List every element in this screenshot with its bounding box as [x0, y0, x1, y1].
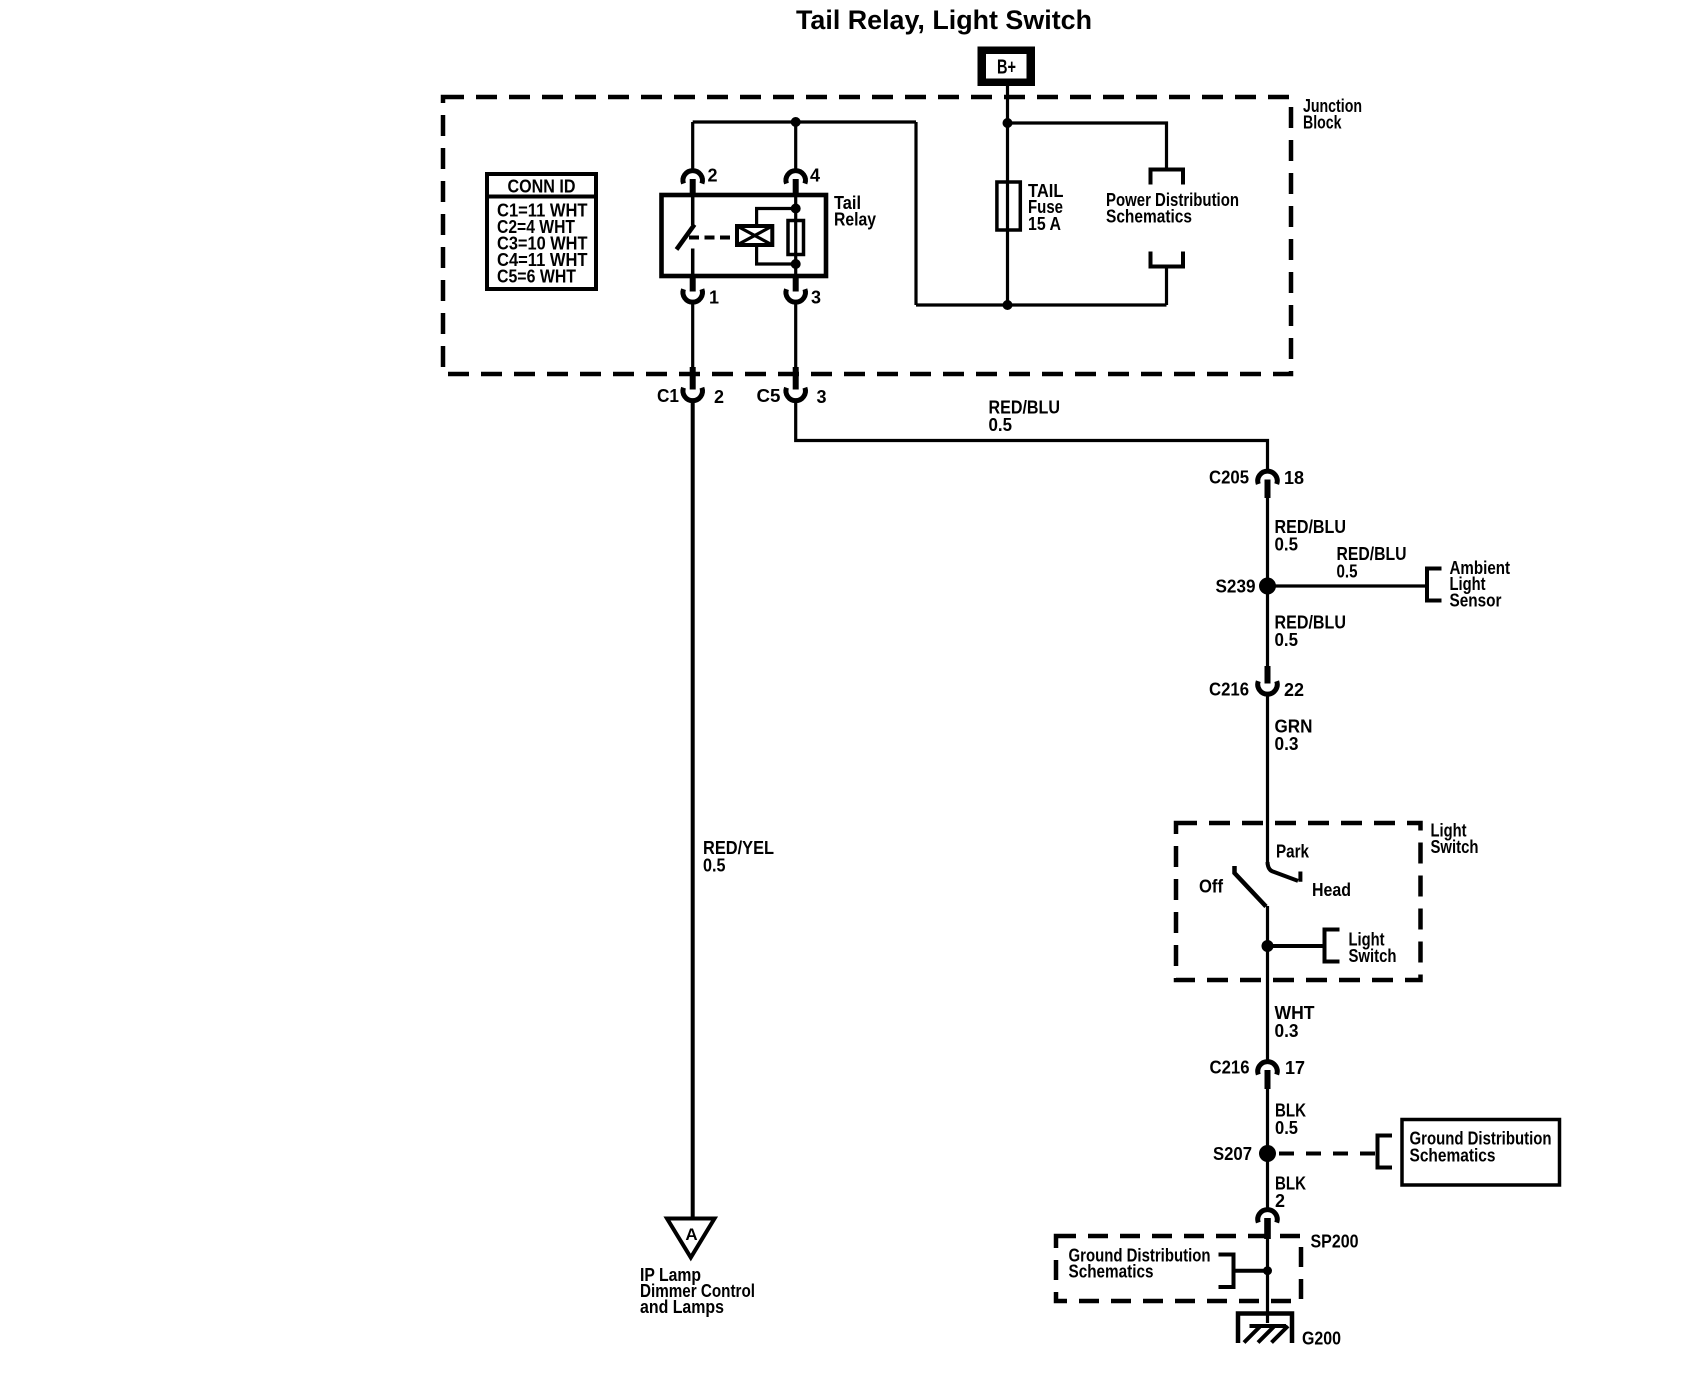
connector above SP200	[1258, 1210, 1278, 1239]
wire S239 to C216	[1266, 586, 1269, 667]
wire branch to ambient light sensor	[1268, 584, 1428, 587]
splice S207	[1213, 1144, 1276, 1164]
wire to relay pin 2	[691, 122, 694, 169]
svg-text:A: A	[685, 1225, 697, 1244]
light switch inside label	[1349, 930, 1397, 967]
svg-text:0.5: 0.5	[1275, 1118, 1298, 1138]
svg-text:Tail Relay, Light Switch: Tail Relay, Light Switch	[796, 5, 1092, 35]
wire S207 to SP200	[1266, 1154, 1269, 1208]
fuse label	[1028, 181, 1064, 234]
wire RED/YEL C1-2 down to A	[691, 403, 695, 1219]
svg-text:SP200: SP200	[1311, 1232, 1359, 1252]
connector relay pin 1	[683, 276, 719, 308]
svg-text:CONN ID: CONN ID	[508, 177, 576, 197]
switch rotary arc park-to-head	[1268, 862, 1301, 882]
wire fuse top to power distribution	[1008, 123, 1167, 170]
connector C205 pin 18	[1209, 468, 1304, 499]
relay actuation dashed link	[689, 236, 737, 240]
svg-text:C205: C205	[1209, 468, 1249, 488]
svg-text:Relay: Relay	[834, 210, 876, 230]
ground distribution schematics box	[1402, 1120, 1560, 1186]
wire RED/BLU from C5-3	[796, 403, 1268, 470]
wire label GRN 0.3	[1275, 717, 1313, 755]
svg-text:0.5: 0.5	[1337, 562, 1358, 582]
relay coil box with X	[737, 226, 772, 245]
svg-text:Schematics: Schematics	[1410, 1146, 1496, 1166]
svg-text:Block: Block	[1303, 113, 1342, 133]
tail relay label	[834, 193, 876, 230]
wire to ground G200	[1266, 1239, 1269, 1323]
node dot at B+/fuse top	[1003, 118, 1013, 128]
svg-text:22: 22	[1284, 680, 1304, 700]
B+ battery feed symbol	[978, 47, 1036, 87]
node dot at fuse bottom	[1003, 300, 1013, 310]
ambient light sensor label	[1450, 558, 1511, 611]
wire bracket to splice SP200	[1234, 1269, 1268, 1273]
svg-text:0.5: 0.5	[1275, 535, 1299, 555]
svg-text:0.3: 0.3	[1275, 1021, 1299, 1041]
connector C5 pin 3	[757, 367, 827, 407]
svg-text:and Lamps: and Lamps	[640, 1297, 724, 1317]
relay K tail relay box	[662, 195, 827, 276]
connector C1 pin 2	[657, 367, 724, 407]
node dot light switch branch	[1262, 940, 1274, 952]
ground symbol G200	[1238, 1314, 1341, 1349]
node junction dot on top wire	[791, 117, 801, 127]
relay switch fixed contact bottom	[691, 249, 695, 277]
svg-text:2: 2	[1275, 1191, 1285, 1211]
wire relay pin3 to C5	[794, 304, 797, 377]
ground distribution dashed boundary SP200	[1056, 1236, 1301, 1301]
power distribution upper bracket	[1151, 170, 1184, 185]
svg-text:3: 3	[811, 288, 821, 308]
destination label IP Lamp Dimmer Control and Lamps	[640, 1265, 755, 1317]
connector relay pin 4	[786, 166, 820, 196]
svg-text:B+: B+	[997, 57, 1016, 79]
relay internal resistor	[788, 221, 804, 255]
node splice dot SP200	[1263, 1266, 1272, 1275]
ground distribution schematics label (dashed box)	[1069, 1246, 1211, 1282]
svg-text:C5=6 WHT: C5=6 WHT	[497, 267, 576, 287]
svg-text:C216: C216	[1210, 1058, 1250, 1078]
dashed reference wire from S207	[1279, 1152, 1378, 1156]
svg-text:Switch: Switch	[1431, 837, 1479, 857]
svg-text:0.5: 0.5	[1275, 630, 1299, 650]
svg-text:0.5: 0.5	[703, 856, 726, 876]
relay switch fixed contact top	[691, 195, 695, 225]
svg-text:0.5: 0.5	[989, 415, 1013, 435]
svg-text:G200: G200	[1302, 1329, 1341, 1349]
node coil bottom dot	[791, 259, 801, 269]
power distribution lower bracket	[1151, 252, 1184, 267]
wire relay pin1 to C1	[691, 304, 694, 377]
wire power distribution to bottom loop	[1165, 267, 1168, 306]
node A off-page triangle	[667, 1219, 715, 1258]
svg-text:S207: S207	[1213, 1144, 1252, 1164]
svg-text:C216: C216	[1209, 680, 1249, 700]
svg-text:4: 4	[810, 166, 820, 186]
wire bottom horizontal of junction loop	[916, 303, 1167, 306]
wire switch common down	[1266, 906, 1269, 1060]
ground distribution bracket (S207)	[1378, 1136, 1393, 1168]
wire label BLK 0.5	[1275, 1101, 1306, 1139]
junction block label	[1303, 96, 1362, 133]
relay coil branch wire	[757, 209, 796, 265]
wire GRN to light switch	[1266, 695, 1269, 866]
wire B+ vertical through fuse	[1006, 86, 1009, 305]
svg-text:Head: Head	[1312, 880, 1351, 900]
CONN ID table	[487, 174, 596, 289]
svg-text:0.3: 0.3	[1275, 734, 1299, 754]
wire C216-17 to S207	[1266, 1089, 1269, 1154]
light switch dashed boundary	[1176, 823, 1421, 980]
junction block dashed boundary	[443, 97, 1291, 374]
svg-text:Off: Off	[1199, 877, 1224, 897]
wire label RED/BLU 0.5	[1275, 517, 1347, 555]
svg-text:C5: C5	[757, 386, 781, 406]
wire branch to light switch bracket	[1268, 944, 1325, 948]
svg-text:15 A: 15 A	[1028, 214, 1061, 234]
connector C216 pin 17	[1210, 1058, 1306, 1090]
wire to relay pin 4	[794, 122, 797, 169]
wire label RED/BLU 0.5	[1275, 613, 1347, 651]
svg-text:17: 17	[1285, 1058, 1305, 1078]
connector C216 pin 22	[1209, 666, 1304, 700]
wire label WHT 0.3	[1275, 1003, 1315, 1041]
svg-text:18: 18	[1284, 468, 1304, 488]
light switch outside label	[1431, 821, 1479, 858]
wire label BLK 2	[1275, 1174, 1306, 1212]
ground distribution bracket (SP200)	[1219, 1255, 1234, 1288]
svg-text:Schematics: Schematics	[1069, 1262, 1154, 1282]
svg-text:Schematics: Schematics	[1106, 207, 1192, 227]
power distribution schematics label	[1106, 190, 1239, 227]
svg-text:1: 1	[709, 288, 719, 308]
wire C205 to S239	[1266, 498, 1269, 586]
wire B+ feed top horizontal	[693, 120, 916, 123]
svg-text:S239: S239	[1216, 577, 1256, 597]
svg-text:Park: Park	[1276, 842, 1310, 862]
svg-text:C1: C1	[657, 386, 679, 406]
svg-text:Switch: Switch	[1349, 946, 1397, 966]
wire right vertical of junction loop	[914, 122, 917, 305]
relay pin4 internal wire	[794, 195, 797, 276]
node coil top dot	[791, 204, 801, 214]
svg-text:Sensor: Sensor	[1450, 591, 1502, 611]
switch off-position blade	[1235, 866, 1267, 907]
splice S239	[1216, 577, 1277, 597]
connector relay pin 3	[786, 276, 821, 308]
svg-text:2: 2	[714, 387, 724, 407]
svg-text:2: 2	[708, 166, 718, 186]
ambient light sensor bracket	[1427, 569, 1442, 601]
svg-text:WHT: WHT	[1275, 1003, 1315, 1023]
fuse TAIL 15A	[997, 182, 1020, 230]
wire label RED/YEL 0.5	[703, 838, 774, 876]
relay switch blade (open)	[677, 225, 695, 250]
svg-text:3: 3	[817, 387, 827, 407]
wire label RED/BLU 0.5 (branch)	[1337, 544, 1407, 582]
connector relay pin 2	[683, 166, 718, 196]
wire label RED/BLU 0.5	[989, 398, 1061, 436]
light switch bracket	[1325, 930, 1340, 962]
